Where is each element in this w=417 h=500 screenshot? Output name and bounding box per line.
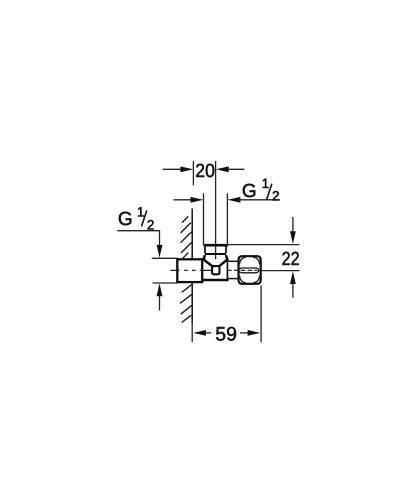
valve stem square [212, 266, 219, 274]
dimension arrow G1/2 left up [157, 283, 163, 296]
valve body bottom [201, 279, 228, 281]
extension line inlet top edge [152, 257, 178, 259]
centerline of valve axis (dash-dot) [170, 269, 257, 271]
funnel right edge [219, 255, 227, 266]
dimension arrow 59 right [248, 330, 261, 336]
svg-text:G: G [242, 181, 257, 202]
top outlet nut right side [225, 246, 227, 253]
wire dimension arrow G1/2 top right [228, 197, 241, 203]
valve inlet block (wall connection) [177, 259, 202, 282]
outlet compression nut [239, 256, 261, 284]
wire dimension line 59 left tail [205, 332, 211, 334]
label G1/2 left [118, 204, 155, 232]
dimension arrow 22 down [292, 217, 294, 234]
svg-text:2: 2 [272, 189, 280, 204]
outlet nut chamfer arc bottom left [239, 276, 246, 283]
wall hatch strokes above valve [181, 216, 192, 258]
wall hatch strokes below valve [180, 285, 192, 323]
svg-text:1: 1 [262, 176, 270, 191]
extension line inlet bottom edge [153, 282, 178, 284]
top outlet nut top bar [203, 244, 228, 247]
svg-text:G: G [118, 209, 133, 230]
pipe left outer line [203, 193, 205, 244]
value label G1/2 top [242, 176, 280, 204]
svg-text:59: 59 [215, 323, 237, 345]
svg-text:20: 20 [195, 161, 215, 182]
extension line 59 left (wall continuation) [191, 323, 193, 342]
top outlet nut left side [204, 246, 206, 253]
funnel left edge [203, 255, 212, 266]
outlet nut chamfer arc top left [239, 257, 246, 264]
extension line axis for 22 [261, 270, 300, 272]
wire dimension line 20 right tail [228, 168, 245, 170]
extension line top of outlet nut for 22 [228, 244, 300, 246]
outlet nut upper face line [239, 268, 259, 270]
wire dimension line G1/2 top left part [174, 199, 193, 201]
wire dimension arrow 20 right [216, 166, 229, 172]
wire dimension arrow G1/2 top left [191, 197, 204, 203]
valve body top left shoulder line [201, 258, 205, 260]
valve body right edge [227, 261, 229, 280]
wire dimension line G1/2 top right tail [239, 199, 280, 201]
dimension arrow 59 left [193, 330, 206, 336]
leader line under G1/2 left [117, 231, 159, 250]
wall face line [191, 209, 193, 324]
dimension arrow G1/2 left down [157, 245, 163, 258]
svg-text:22: 22 [282, 249, 300, 270]
wire dimension line 20 left tail [163, 168, 183, 170]
top outlet nut bottom bar [205, 253, 226, 255]
pipe right outer line [226, 193, 228, 244]
extension line 59 right (from nut edge) [260, 285, 262, 342]
neck between body and outlet nut [228, 261, 239, 278]
dimension arrow 22 up [290, 271, 296, 284]
svg-text:1: 1 [137, 204, 145, 219]
outlet nut chamfer arc bottom right [253, 276, 260, 283]
outlet nut lower face line [239, 270, 259, 273]
node pipe centerline extension [215, 161, 217, 259]
node extension line wall face for 20 [192, 161, 194, 186]
outlet nut chamfer arc top right [253, 257, 260, 264]
leader tail below up arrow [159, 295, 161, 311]
wire dimension line 59 right tail [240, 332, 249, 334]
wire dimension arrow 20 left [180, 166, 193, 172]
